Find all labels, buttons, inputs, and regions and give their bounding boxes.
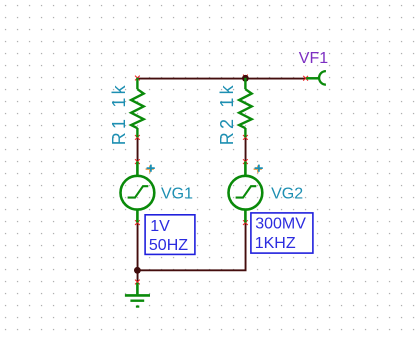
svg-text:300MV: 300MV	[255, 215, 306, 232]
svg-text:VF1: VF1	[299, 50, 328, 67]
svg-text:R2 1k: R2 1k	[217, 82, 237, 145]
svg-text:1V: 1V	[150, 218, 170, 235]
svg-text:50HZ: 50HZ	[149, 237, 188, 254]
svg-text:VG2: VG2	[271, 185, 303, 202]
svg-text:1KHZ: 1KHZ	[255, 235, 296, 252]
svg-text:R1 1k: R1 1k	[109, 82, 129, 145]
svg-text:VG1: VG1	[161, 185, 193, 202]
